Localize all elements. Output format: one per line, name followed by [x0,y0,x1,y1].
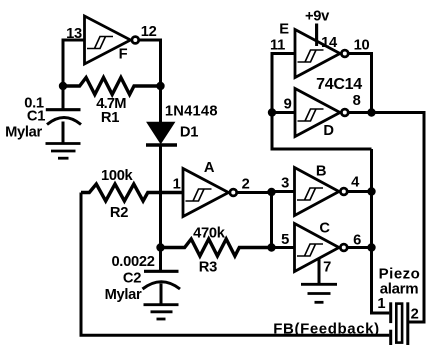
svg-text:11: 11 [270,38,285,54]
svg-text:D1: D1 [180,125,198,141]
svg-text:FB(Feedback): FB(Feedback) [273,321,379,338]
svg-text:B: B [316,164,326,180]
svg-text:R3: R3 [199,260,217,276]
svg-text:R2: R2 [110,205,128,221]
svg-text:Mylar: Mylar [105,287,142,303]
svg-text:1: 1 [173,177,181,193]
svg-text:100k: 100k [101,168,134,184]
svg-text:C: C [319,221,330,237]
svg-text:4: 4 [351,175,360,191]
svg-text:C1: C1 [27,109,45,125]
svg-text:2: 2 [242,177,250,193]
svg-text:6: 6 [353,233,361,249]
svg-text:Mylar: Mylar [5,124,42,140]
svg-text:12: 12 [141,24,157,40]
svg-text:D: D [323,123,333,139]
svg-text:1N4148: 1N4148 [165,104,218,120]
svg-text:13: 13 [66,26,82,42]
svg-text:0.0022: 0.0022 [111,254,154,270]
svg-text:alarm: alarm [380,281,419,298]
svg-text:A: A [204,160,215,176]
svg-text:7: 7 [323,259,331,275]
svg-text:2: 2 [411,307,419,323]
svg-text:8: 8 [353,93,361,109]
svg-text:1: 1 [377,296,385,312]
svg-text:3: 3 [281,176,289,192]
svg-text:+9v: +9v [305,9,330,25]
svg-text:9: 9 [284,97,292,113]
svg-text:F: F [119,47,128,63]
svg-text:E: E [279,22,289,38]
svg-text:14: 14 [321,35,338,51]
svg-text:10: 10 [354,38,370,54]
svg-text:R1: R1 [101,110,119,126]
svg-text:C2: C2 [123,271,141,287]
svg-text:5: 5 [281,232,289,248]
svg-text:74C14: 74C14 [316,76,362,93]
svg-text:470k: 470k [193,226,226,242]
